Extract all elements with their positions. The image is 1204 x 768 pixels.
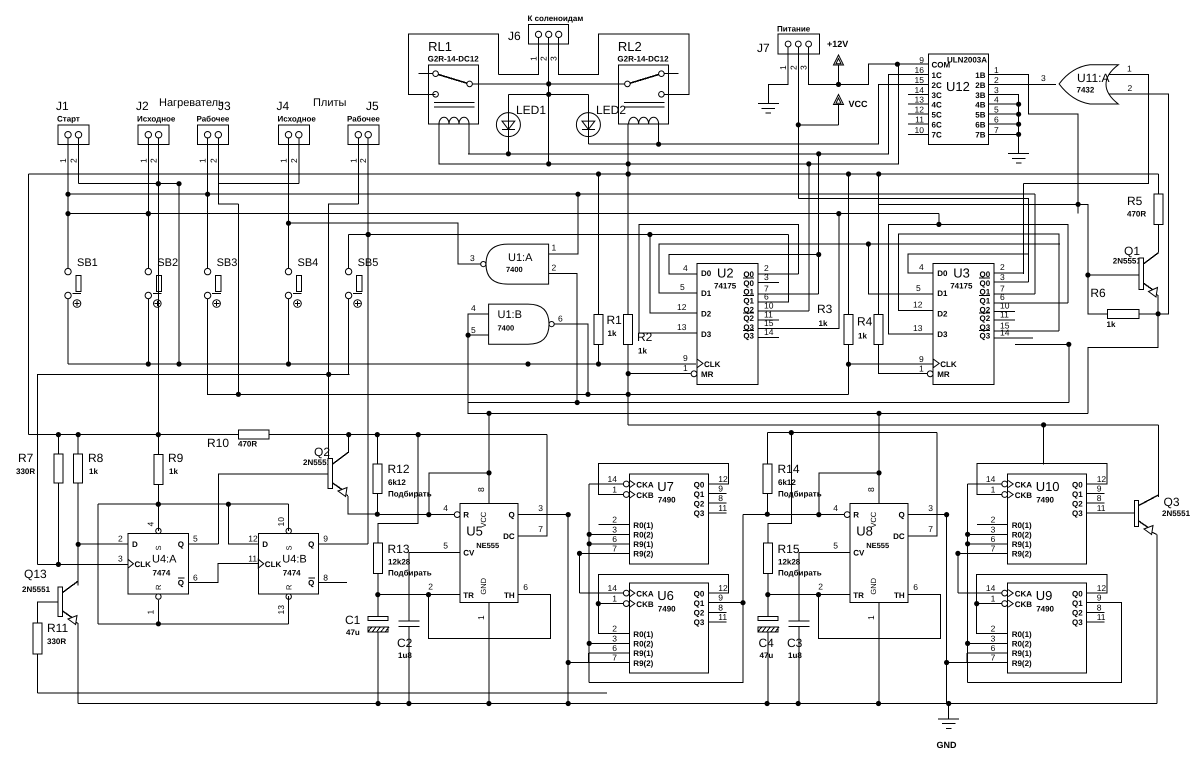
svg-text:1: 1 [529, 56, 539, 61]
svg-text:5: 5 [193, 534, 198, 544]
svg-text:7400: 7400 [506, 265, 523, 274]
wire J4.2 [298, 138, 300, 184]
svg-text:U3: U3 [953, 266, 970, 281]
svg-text:Q1: Q1 [1072, 490, 1083, 499]
svg-text:7474: 7474 [283, 569, 301, 578]
wire RL2 coil right [658, 124, 660, 144]
svg-text:9: 9 [718, 593, 723, 603]
svg-text:R13: R13 [388, 542, 410, 556]
svg-text:TH: TH [894, 591, 905, 600]
svg-text:14: 14 [986, 474, 996, 484]
CLK bus right segment [848, 363, 933, 365]
wire U10 R0 R9 rows [977, 524, 1008, 526]
svg-text:7490: 7490 [658, 604, 676, 613]
svg-text:Q2: Q2 [743, 314, 754, 323]
svg-text:D2: D2 [701, 310, 712, 319]
wire U2 D3 feedback [639, 224, 798, 333]
bus line y434 main 555 supply [29, 434, 239, 436]
svg-text:GND: GND [937, 740, 958, 750]
wire LED2 cathode to y144 [587, 137, 589, 145]
svg-text:Q3: Q3 [694, 509, 705, 518]
wire U6 Q3 stub [708, 621, 726, 623]
svg-text:3: 3 [612, 524, 617, 534]
wire U5 GND pin [488, 603, 490, 704]
svg-text:Рабочее: Рабочее [197, 115, 230, 124]
wire U8 R bubble [844, 512, 850, 518]
wire SB5 bottom to MR bus [348, 299, 350, 375]
svg-text:GND: GND [869, 577, 878, 594]
wire RL1 common to RL2 common y84 [472, 83, 624, 85]
wire ladder col A [567, 515, 569, 704]
svg-text:Q2: Q2 [694, 500, 705, 509]
svg-text:Подбирать: Подбирать [778, 490, 822, 499]
svg-text:8: 8 [476, 487, 486, 492]
wire U4A Qbar to U4B CLK [188, 564, 258, 583]
wire U7 Q1 stub [708, 493, 726, 495]
wire R13 bottom to TR [377, 573, 379, 616]
svg-text:R11: R11 [47, 621, 68, 635]
FF bottom bus y624 [98, 623, 289, 625]
wire U4B D from top bus [228, 504, 258, 544]
wire U11 pin2 [1109, 94, 1169, 314]
svg-text:U1:B: U1:B [498, 309, 522, 321]
svg-text:47u: 47u [760, 651, 774, 660]
capacitor electrolytic C4 47u [758, 616, 778, 620]
wire R12 top [376, 435, 378, 464]
wire J3.1 to SB3 [207, 138, 209, 269]
svg-text:Q13: Q13 [24, 567, 47, 581]
svg-text:CLK: CLK [135, 560, 152, 569]
svg-text:11: 11 [718, 612, 727, 622]
wire LED line y94 [508, 93, 588, 95]
ic U10 7490 [1008, 474, 1087, 564]
wire J7.3 to +12V [809, 47, 839, 85]
svg-text:16: 16 [915, 65, 925, 75]
svg-text:47u: 47u [346, 628, 360, 637]
svg-text:G2R-14-DC12: G2R-14-DC12 [617, 55, 669, 64]
svg-text:R9(2): R9(2) [633, 659, 653, 668]
svg-text:14: 14 [915, 85, 925, 95]
svg-text:R0(2): R0(2) [1012, 640, 1032, 649]
wire SB5 top to y234 [348, 235, 350, 269]
bus line y184 right U3 Q0 to U11.1 [1023, 183, 1148, 185]
svg-text:CKA: CKA [636, 589, 654, 598]
wire U8 Q out [908, 514, 947, 516]
svg-text:2: 2 [208, 158, 218, 163]
capacitor C3 1u8 [789, 620, 810, 622]
svg-text:12: 12 [913, 300, 923, 310]
svg-text:1k: 1k [1107, 320, 1116, 329]
svg-text:+12V: +12V [827, 39, 848, 49]
bus line y183 left [79, 183, 180, 185]
svg-text:R14: R14 [778, 462, 800, 476]
svg-text:RL2: RL2 [618, 39, 642, 54]
wire SB3 bottom drop [207, 299, 209, 395]
svg-text:6k12: 6k12 [778, 478, 796, 487]
wire SB1 bottom to CLK bus [67, 299, 69, 364]
flipflop U4:B 7474 [258, 534, 318, 595]
RL2 coil [629, 117, 659, 123]
wire SB4 top [288, 223, 290, 268]
svg-text:1: 1 [279, 158, 289, 163]
svg-text:2: 2 [788, 65, 798, 70]
svg-text:R8: R8 [88, 451, 104, 465]
svg-text:C2: C2 [397, 636, 413, 650]
bus line y174 [29, 173, 1159, 175]
svg-text:13: 13 [276, 605, 286, 615]
wire J6.1 [499, 38, 539, 75]
svg-text:J3: J3 [218, 99, 231, 113]
bottom bus B1 y693 [38, 692, 608, 694]
svg-text:1C: 1C [932, 71, 942, 80]
wire MR row U2 [628, 373, 690, 375]
svg-text:14: 14 [986, 583, 996, 593]
svg-text:5: 5 [443, 541, 448, 551]
wire R14 top [766, 433, 768, 464]
RL1 coil [439, 117, 469, 123]
wire R7 column [57, 435, 59, 454]
wire bus174 into R5 [1157, 174, 1159, 194]
wire U10 CKA row [968, 483, 1002, 485]
svg-text:R9(1): R9(1) [1012, 540, 1032, 549]
wire U3 Q1bar [994, 302, 1068, 304]
svg-text:R0(1): R0(1) [1012, 521, 1032, 530]
wire +12V to U12 COM [839, 64, 929, 84]
svg-text:1: 1 [348, 158, 358, 163]
svg-text:3: 3 [764, 272, 769, 282]
svg-text:3: 3 [118, 554, 123, 564]
svg-text:11: 11 [915, 115, 924, 125]
svg-text:10: 10 [915, 125, 925, 135]
svg-text:SB2: SB2 [157, 257, 178, 269]
svg-text:S: S [154, 545, 163, 550]
wire U12 2B to U11 output [989, 84, 1056, 86]
svg-text:RL1: RL1 [428, 39, 452, 54]
svg-text:U9: U9 [1036, 588, 1053, 603]
svg-text:CKA: CKA [1015, 589, 1033, 598]
wire R14 bottom [766, 494, 768, 515]
wire U4A CLK row [38, 563, 129, 565]
svg-text:6: 6 [612, 643, 617, 653]
svg-text:R7: R7 [18, 451, 34, 465]
wire U10 Q3 row [1087, 512, 1135, 514]
svg-text:12: 12 [718, 583, 728, 593]
svg-text:Q: Q [508, 511, 514, 520]
ic U8 NE555 [850, 504, 908, 603]
svg-text:U10: U10 [1036, 479, 1060, 494]
wire U11 pin1 [1109, 75, 1149, 185]
wire U10 Q1 stub [1087, 493, 1105, 495]
wire U2 Q2bar stub [758, 319, 779, 321]
svg-text:R9(2): R9(2) [1012, 659, 1032, 668]
svg-text:7: 7 [928, 524, 933, 534]
svg-text:13: 13 [915, 95, 925, 105]
wire U3 Q2bar stub [994, 319, 1015, 321]
svg-text:Q2: Q2 [1072, 609, 1083, 618]
wire U12 1B path [989, 75, 1078, 214]
ic U7 7490 [629, 474, 708, 564]
svg-text:1: 1 [198, 158, 208, 163]
wire U7 Q3 row [708, 512, 726, 514]
svg-text:7: 7 [612, 543, 617, 553]
staircase Q1 emitter to y413 line [1088, 314, 1158, 414]
svg-text:R0(1): R0(1) [633, 521, 653, 530]
RL2 NO stub [664, 73, 678, 75]
svg-text:7: 7 [991, 543, 996, 553]
wire R13 jog to bus [378, 435, 418, 543]
svg-text:MR: MR [937, 370, 950, 379]
svg-text:1k: 1k [819, 319, 828, 328]
svg-text:2: 2 [1000, 262, 1005, 272]
wire U12 4B-7B stubs [989, 103, 1019, 105]
svg-text:5: 5 [994, 105, 999, 115]
svg-text:VCC: VCC [849, 99, 869, 109]
svg-text:1: 1 [991, 594, 996, 604]
wire U1A pin1 [549, 194, 578, 254]
RL1 separator lines [434, 102, 475, 104]
svg-text:Q2: Q2 [980, 314, 991, 323]
wire U2 Q1bar to D2 [758, 235, 788, 303]
svg-text:5: 5 [680, 282, 685, 292]
wire U5 CV row [409, 551, 460, 553]
FF top bus y504 [98, 503, 289, 505]
wire J7.2 VCC drop [797, 47, 799, 199]
svg-text:ULN2003A: ULN2003A [947, 56, 987, 65]
svg-text:7: 7 [991, 653, 996, 663]
riser to U10 loop [1043, 425, 1045, 464]
line y204 to Q1 base col [879, 204, 1108, 313]
svg-text:R0(1): R0(1) [1012, 630, 1032, 639]
svg-text:9: 9 [323, 534, 328, 544]
svg-text:2N5551: 2N5551 [303, 458, 332, 467]
CLK bus y364 [68, 363, 696, 365]
line y425 R2col to Q3 collector [628, 424, 1158, 426]
col 1068.8 down [1068, 344, 1070, 402]
ic U3 74175 [933, 264, 994, 385]
svg-text:Подбирать: Подбирать [388, 569, 432, 578]
wire U3 Q1 out [994, 293, 1035, 295]
svg-text:15: 15 [915, 75, 925, 85]
svg-text:4: 4 [919, 262, 924, 272]
svg-text:1: 1 [994, 65, 999, 75]
RL1 outer loop wire [409, 34, 499, 94]
wire U3 Q3 out [994, 330, 1059, 332]
svg-text:Q1: Q1 [1072, 599, 1083, 608]
svg-text:CKB: CKB [1015, 491, 1033, 500]
svg-text:Q0: Q0 [694, 480, 705, 489]
ground symbol U12 [1008, 153, 1029, 155]
svg-text:1: 1 [778, 65, 788, 70]
wire y425 corner down to Q3 [1157, 425, 1159, 497]
svg-text:3: 3 [1000, 272, 1005, 282]
wire R9 column [157, 435, 159, 455]
svg-text:LED1: LED1 [516, 103, 546, 117]
svg-text:D2: D2 [937, 310, 948, 319]
wire U4B Q out [319, 543, 369, 545]
wire J2.2 long drop [157, 138, 159, 435]
wire U2 Q3 riser [758, 214, 839, 329]
svg-text:3: 3 [549, 56, 559, 61]
svg-text:Старт: Старт [57, 115, 80, 124]
svg-text:Q2: Q2 [314, 445, 330, 459]
wire U10 loop Q0-CKB [977, 464, 1107, 495]
svg-text:Питание: Питание [777, 25, 811, 34]
svg-text:1: 1 [1127, 64, 1132, 74]
svg-text:4: 4 [833, 503, 838, 513]
svg-text:2N5551: 2N5551 [22, 585, 51, 594]
wire U5 TR row [378, 594, 460, 596]
wire U8 CV cap column [798, 552, 800, 621]
svg-text:Q3: Q3 [1072, 618, 1083, 627]
svg-text:2: 2 [69, 158, 79, 163]
RL2 separator lines [624, 102, 665, 104]
svg-text:1: 1 [866, 615, 876, 620]
svg-text:R6: R6 [1090, 286, 1106, 300]
svg-text:9: 9 [919, 354, 924, 364]
svg-text:7490: 7490 [658, 495, 676, 504]
svg-text:U4:A: U4:A [152, 554, 177, 566]
svg-text:11: 11 [1000, 310, 1009, 320]
svg-text:CLK: CLK [940, 360, 957, 369]
svg-text:2: 2 [991, 515, 996, 525]
RL2 contacts [659, 71, 665, 77]
svg-text:Q: Q [308, 540, 314, 549]
svg-text:Q2: Q2 [694, 609, 705, 618]
wire J4.1 to SB4 [288, 138, 290, 269]
svg-text:R9(2): R9(2) [1012, 550, 1032, 559]
svg-text:4: 4 [443, 503, 448, 513]
svg-text:3: 3 [799, 65, 809, 70]
wire R4 column [878, 174, 880, 314]
wire U2 Q2 riser [758, 310, 809, 312]
svg-text:5B: 5B [975, 110, 985, 119]
wire R3 column [848, 174, 850, 314]
line y154 RL1coil/LED1 to U12 1C [468, 75, 929, 154]
svg-text:К соленоидам: К соленоидам [528, 14, 584, 23]
svg-text:COM: COM [932, 61, 951, 70]
svg-text:330R: 330R [16, 467, 35, 476]
wire U9 Q2 stub [1087, 611, 1105, 613]
wire x938.9 jog to U3 D3 line [938, 214, 940, 225]
line y413 U1B inputs [468, 335, 1088, 413]
svg-text:1u8: 1u8 [788, 651, 802, 660]
svg-text:2: 2 [428, 582, 433, 592]
svg-text:VCC: VCC [869, 511, 878, 527]
svg-text:CLK: CLK [704, 360, 721, 369]
svg-text:4: 4 [994, 95, 999, 105]
svg-text:SB1: SB1 [77, 257, 98, 269]
svg-text:C3: C3 [787, 636, 803, 650]
svg-text:Q1: Q1 [980, 296, 991, 305]
svg-text:Подбирать: Подбирать [388, 490, 432, 499]
svg-text:11: 11 [1097, 612, 1106, 622]
ic U2 74175 [697, 264, 758, 385]
svg-text:R0(1): R0(1) [633, 630, 653, 639]
svg-text:2: 2 [118, 534, 123, 544]
svg-text:8: 8 [323, 573, 328, 583]
wire U6 CKA row [580, 592, 624, 594]
svg-text:Плиты: Плиты [313, 97, 347, 109]
svg-text:SB4: SB4 [298, 257, 319, 269]
svg-text:3: 3 [994, 85, 999, 95]
wire J1.2 [78, 138, 80, 184]
line y144 LED2/RL2coil to U12 2C [588, 85, 928, 145]
wire ladder col A [946, 515, 948, 704]
svg-text:J7: J7 [757, 41, 770, 55]
wire R11 bottom to bus B1 [37, 654, 39, 693]
svg-text:6C: 6C [932, 120, 942, 129]
wire J6.3 loop to RL2 [559, 34, 689, 94]
wire U1B pin4 bracket [468, 314, 489, 335]
svg-text:U4:B: U4:B [282, 554, 306, 566]
wire U8 GND pin [878, 603, 880, 704]
svg-text:R: R [284, 584, 293, 590]
svg-text:DC: DC [503, 532, 515, 541]
svg-text:R9(1): R9(1) [633, 649, 653, 658]
svg-text:1k: 1k [89, 467, 98, 476]
svg-text:9: 9 [683, 353, 688, 363]
svg-text:3: 3 [470, 253, 475, 263]
svg-text:U7: U7 [657, 479, 674, 494]
svg-text:R: R [154, 584, 163, 590]
bus line y223 to U1:A.3 [289, 223, 481, 264]
wire J3.2 [218, 138, 238, 204]
or-gate U11:A 7432 [1059, 65, 1118, 104]
wire U9 R0R9 rows [977, 604, 1008, 634]
wire J7.1 to ground [768, 47, 788, 104]
svg-text:DC: DC [893, 532, 905, 541]
svg-text:U11:A: U11:A [1077, 71, 1109, 85]
svg-text:2: 2 [612, 624, 617, 634]
svg-text:3: 3 [928, 503, 933, 513]
wire U2 D2 feedback [650, 235, 697, 314]
svg-text:R5: R5 [1127, 194, 1143, 208]
wire U8 VCC loop [819, 473, 879, 515]
svg-text:Рабочее: Рабочее [347, 115, 380, 124]
svg-text:6: 6 [612, 534, 617, 544]
svg-text:Q0: Q0 [1072, 589, 1083, 598]
svg-text:Q2: Q2 [1072, 500, 1083, 509]
wire U3 Q0 out [994, 272, 1023, 274]
svg-text:R9(2): R9(2) [633, 550, 653, 559]
wire RL1 coil right [468, 124, 470, 154]
svg-text:R3: R3 [817, 302, 833, 316]
wire RL2 coil left long drop R2 column [627, 124, 629, 315]
svg-text:TH: TH [504, 591, 515, 600]
svg-text:2B: 2B [975, 81, 985, 90]
wire U5 Q out [518, 514, 568, 516]
svg-text:2N5551: 2N5551 [1113, 257, 1142, 266]
wire U2 D1 feedback from bus244 [659, 244, 1060, 293]
svg-text:CKB: CKB [636, 491, 654, 500]
svg-text:5: 5 [916, 283, 921, 293]
svg-text:D1: D1 [937, 289, 948, 298]
wire U3 D1 from bus244 [868, 244, 933, 294]
svg-text:R0(2): R0(2) [633, 531, 653, 540]
bottom bus B2 y703.5 ground [78, 703, 1157, 705]
svg-text:8: 8 [866, 487, 876, 492]
wire U3 Q3bar stub [994, 337, 1033, 339]
wire R10 right to Q2 collector [348, 435, 350, 452]
svg-text:6: 6 [991, 534, 996, 544]
wire J2.1 to SB2 [147, 138, 149, 269]
wire ladder col C [588, 484, 590, 683]
wire R1 column [598, 174, 600, 314]
wire Q2 base to U4A Q riser [219, 474, 329, 544]
wire U6 Q1 riser to U8 R row [742, 515, 744, 603]
svg-text:6: 6 [193, 573, 198, 583]
wire Q3 emitter to B2 [1156, 535, 1158, 704]
